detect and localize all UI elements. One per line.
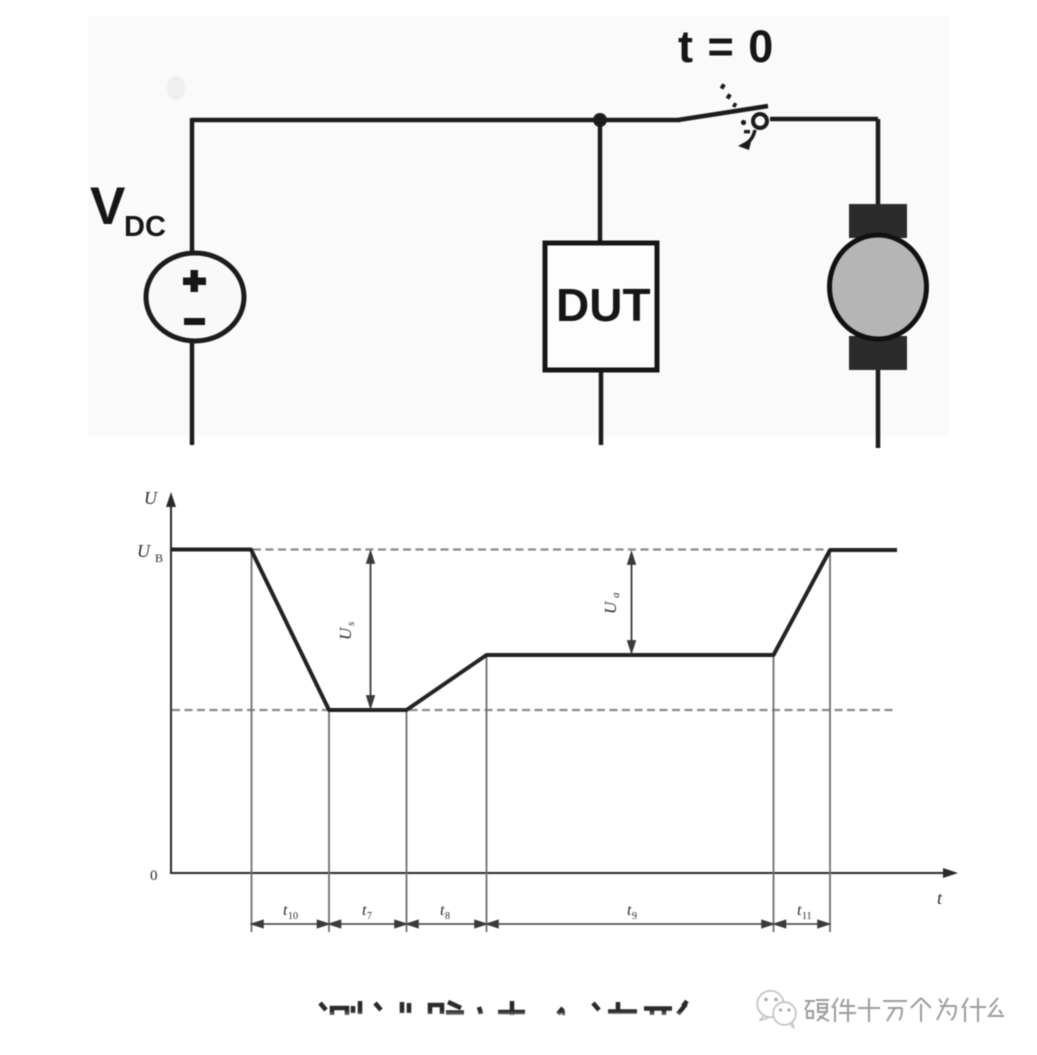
svg-text:0: 0	[150, 868, 158, 884]
svg-text:9: 9	[632, 911, 637, 922]
svg-text:V: V	[90, 177, 125, 236]
svg-text:7: 7	[367, 911, 372, 922]
svg-text:t: t	[937, 888, 943, 908]
svg-text:t = 0: t = 0	[678, 21, 774, 72]
svg-text:a: a	[610, 592, 622, 598]
svg-text:11: 11	[802, 911, 812, 922]
svg-text:B: B	[155, 551, 163, 565]
svg-text:DC: DC	[124, 211, 166, 243]
svg-text:s: s	[345, 622, 357, 626]
svg-text:8: 8	[445, 911, 450, 922]
svg-text:U: U	[336, 626, 355, 640]
svg-text:U: U	[137, 541, 151, 561]
svg-text:10: 10	[288, 911, 298, 922]
svg-text:DUT: DUT	[556, 279, 651, 331]
svg-text:U: U	[601, 600, 620, 614]
svg-text:U: U	[144, 488, 158, 508]
